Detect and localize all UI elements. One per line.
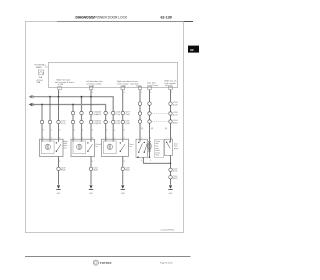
svg-text:2: 2 <box>124 92 125 94</box>
switch S4 lock <box>138 142 139 143</box>
wire box2 to ground <box>90 157 92 185</box>
fuse F15 <box>38 70 43 75</box>
wire legend to junction box <box>44 66 48 68</box>
svg-text:(L04): (L04) <box>116 114 121 116</box>
label door unlock relay <box>165 79 178 87</box>
svg-text:(L07): (L07) <box>173 114 178 116</box>
svg-text:relay: relay <box>155 155 159 157</box>
svg-text:door: door <box>155 143 159 145</box>
svg-text:2: 2 <box>74 129 75 131</box>
node bus2 x42 <box>41 104 43 106</box>
wire dashed link row3 <box>152 121 169 123</box>
svg-text:2: 2 <box>171 92 172 94</box>
svg-text:Page 31 of 62: Page 31 of 62 <box>160 262 173 264</box>
svg-text:Issued 62PW-01: Issued 62PW-01 <box>161 229 175 231</box>
connector C4 <box>169 168 172 171</box>
svg-text:5: 5 <box>150 160 151 162</box>
inline connector circles group2 <box>71 111 92 123</box>
wire box3 to ground <box>122 157 124 185</box>
connector pin box 4 <box>138 87 142 90</box>
header rule <box>57 21 193 23</box>
node j3 <box>170 163 172 165</box>
connector C1 <box>57 167 60 170</box>
motor M4 <box>149 142 151 158</box>
connector C3 <box>121 167 124 170</box>
svg-text:(L03): (L03) <box>97 123 102 125</box>
wire G4-c <box>170 90 172 142</box>
bus B+ (lock line) <box>31 97 113 142</box>
svg-text:10A: 10A <box>37 81 41 84</box>
svg-text:3: 3 <box>92 129 93 131</box>
label door lock relay <box>147 82 158 86</box>
bus arrow left lock line <box>29 95 32 98</box>
wire G2-c <box>90 90 92 142</box>
svg-text:TOYOTA: TOYOTA <box>100 261 112 265</box>
svg-text:6: 6 <box>124 161 125 163</box>
svg-text:G51: G51 <box>57 193 61 195</box>
svg-text:sw.: sw. <box>129 146 132 148</box>
wire box1 to ground <box>58 157 60 185</box>
bus B- (unlock line) <box>31 105 106 142</box>
svg-text:G52: G52 <box>89 193 93 195</box>
svg-text:1: 1 <box>141 92 142 94</box>
svg-text:Power: Power <box>155 141 160 143</box>
svg-text:relay: relay <box>174 147 178 150</box>
inline connector circles row y122 group1 <box>40 120 60 123</box>
motor M3 <box>107 144 112 149</box>
svg-text:5: 5 <box>59 92 60 94</box>
lock-unlock switch assembly (box4a) <box>136 139 148 157</box>
svg-text:1: 1 <box>51 129 52 131</box>
wire box4b to ground <box>170 155 172 184</box>
wire G2-b <box>81 97 83 142</box>
svg-text:3: 3 <box>59 129 60 131</box>
section tab 62 <box>188 46 200 53</box>
connector pin box 2 <box>89 87 93 90</box>
inline connector circles group4 <box>138 102 172 123</box>
motor M1 <box>45 144 50 149</box>
diagram frame <box>25 21 183 232</box>
svg-text:3: 3 <box>141 160 142 162</box>
svg-text:(L05): (L05) <box>116 123 121 125</box>
svg-text:(B05): (B05) <box>173 178 178 180</box>
door lock actuator RR (box3) <box>102 139 129 156</box>
switch S2 <box>87 142 88 143</box>
svg-text:3: 3 <box>92 92 93 94</box>
svg-text:(L06): (L06) <box>125 114 130 116</box>
inline connector circles group3 <box>104 111 125 123</box>
svg-text:6: 6 <box>92 161 93 163</box>
svg-text:(L08): (L08) <box>173 104 178 106</box>
wire G2-a <box>72 105 74 142</box>
svg-text:lock: lock <box>155 146 158 148</box>
wire G3-c <box>122 90 124 142</box>
wire G4-a <box>139 90 141 142</box>
connector C2 <box>89 167 92 170</box>
wire dashed link group3 row1 <box>108 112 112 114</box>
svg-text:6: 6 <box>59 161 60 163</box>
node bus2 x73 <box>72 104 74 106</box>
node bus1 x50 <box>49 96 51 98</box>
svg-text:2: 2 <box>106 129 107 131</box>
wire G4-b <box>149 90 151 142</box>
wire box4a bottom drop <box>142 157 144 163</box>
switch S6 <box>166 142 167 143</box>
svg-text:1: 1 <box>82 129 83 131</box>
node box4a bottom left <box>137 156 139 158</box>
svg-text:4 (30): 4 (30) <box>58 84 64 86</box>
svg-text:(B01): (B01) <box>173 122 178 124</box>
connector pin box 6 <box>169 87 173 90</box>
ground G3 <box>121 185 124 188</box>
wire dashed link row2 <box>152 113 169 115</box>
label left rear door <box>131 80 142 88</box>
door lock actuator LF (box2) <box>71 139 95 156</box>
publisher logo <box>93 260 98 265</box>
svg-text:3: 3 <box>150 92 151 94</box>
label left front door lock actuator <box>86 80 103 88</box>
connector pin box 1 <box>58 87 62 90</box>
svg-text:(L08): (L08) <box>125 123 130 125</box>
svg-text:(L03): (L03) <box>173 171 178 173</box>
motor M2 <box>77 144 82 149</box>
ground G2 <box>89 185 92 188</box>
key switch (box4b) <box>164 139 172 155</box>
connector C5 <box>169 176 172 179</box>
switch S5 unlock <box>144 142 145 143</box>
node bus1 x81 <box>81 96 83 98</box>
svg-text:2: 2 <box>43 129 44 131</box>
svg-text:(B04): (B04) <box>125 170 130 172</box>
wire dashed link group3 row2 <box>108 121 112 123</box>
connector pin box 5 <box>148 87 152 90</box>
footer rule <box>25 256 191 258</box>
svg-text:lock: lock <box>63 147 66 149</box>
svg-text:G54: G54 <box>169 193 173 195</box>
pin numbers under junction block <box>59 92 172 94</box>
pin numbers at box entries <box>43 137 173 139</box>
bus arrow left unlock line <box>29 103 32 106</box>
switch S1 <box>56 142 57 143</box>
svg-text:(Lock): (Lock) <box>155 152 160 154</box>
svg-text:(B03): (B03) <box>61 170 66 172</box>
wire G1-c <box>58 90 60 142</box>
connector pin box 3 <box>121 87 125 90</box>
relay text block <box>155 140 164 158</box>
svg-text:62-139: 62-139 <box>161 16 172 20</box>
node bus1 x91 <box>90 96 92 98</box>
wire G1-b <box>49 97 51 142</box>
svg-text:15A: 15A <box>39 76 43 79</box>
svg-text:3: 3 <box>124 129 125 131</box>
power feed legend <box>35 63 47 68</box>
svg-text:sw.: sw. <box>95 146 98 148</box>
door lock actuator RF (box1) <box>40 139 64 156</box>
pin labels above boxes <box>43 128 168 131</box>
wire bottom link <box>143 162 170 164</box>
svg-text:62: 62 <box>190 48 194 52</box>
junction block J/B <box>49 62 178 87</box>
svg-text:(B01): (B01) <box>93 170 98 172</box>
label right front door lock actuator <box>55 78 74 86</box>
ground G4 <box>169 185 172 188</box>
node bus1 x58 <box>58 96 60 98</box>
svg-text:1: 1 <box>114 129 115 131</box>
svg-text:4: 4 <box>150 137 151 139</box>
node box4a bottom right <box>149 157 151 159</box>
svg-text:main: main <box>155 148 159 150</box>
wire G1-a <box>41 105 43 142</box>
svg-text:(L01): (L01) <box>61 123 66 125</box>
fuse rating labels <box>37 76 44 84</box>
label right rear door <box>117 80 131 88</box>
svg-text:(L02): (L02) <box>97 114 102 116</box>
svg-text:G53: G53 <box>121 193 125 195</box>
svg-text:DIAGNOSIS/POWER DOOR LOCK: DIAGNOSIS/POWER DOOR LOCK <box>76 16 128 20</box>
ground G1 <box>57 185 60 188</box>
svg-text:TIMES: TIMES <box>36 67 43 69</box>
switch S3 <box>120 142 121 143</box>
